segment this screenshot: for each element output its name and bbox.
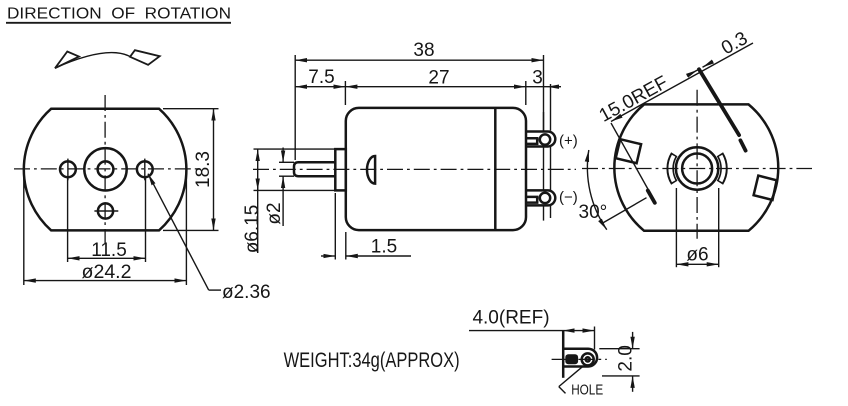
rear view lower-right square [754,176,777,200]
front view right hole [137,161,153,177]
dim 30 degrees [579,150,647,230]
rear view horizontal centerline [582,168,812,170]
svg-text:HOLE: HOLE [571,383,603,399]
svg-text:3: 3 [532,68,543,89]
rear view left slot [670,154,674,183]
dim 3 [526,68,561,131]
svg-text:ø2.36: ø2.36 [222,282,271,303]
dim 27 [345,68,525,106]
rear view outline [614,104,778,230]
title DIRECTION OF ROTATION [6,6,231,23]
front view vertical centerline [104,95,106,243]
terminal tab plus [527,132,556,147]
svg-text:27: 27 [428,68,449,89]
side view endcap seam [494,108,497,230]
terminal tab minus [527,190,556,205]
side view bushing [335,149,346,190]
dim line 15.0REF / 0.3 [596,28,753,127]
rotation arrow arc [55,53,130,68]
svg-text:30°: 30° [579,202,608,223]
dim 11.5 [68,176,146,262]
rotation arrow right head [130,50,160,65]
detail view body edge [562,330,565,378]
detail view slot [565,354,578,364]
rear view bearing circle [682,154,712,184]
svg-text:(+): (+) [559,133,578,150]
svg-text:4.0(REF): 4.0(REF) [472,307,549,328]
hole label leader [559,366,604,399]
blade plane line [611,123,649,191]
dim dia 24.2 [24,175,187,285]
rear terminal blade upper [699,69,739,135]
svg-text:DIRECTION OF ROTATION: DIRECTION OF ROTATION [7,6,231,23]
front view bottom hole [98,203,113,218]
leader dia 2.36 [148,174,271,303]
dim dia 2 [264,148,294,227]
side view terminal lines [544,112,551,221]
rear view upper-left square [616,139,641,163]
dim dia 6.15 [242,149,335,253]
dim 2.0 [599,332,639,392]
svg-text:7.5: 7.5 [308,67,334,88]
side view axis centerline [253,168,576,170]
detail view tab [563,349,597,367]
front view outline [24,109,187,231]
dim 18.3 [163,109,219,231]
svg-text:38: 38 [413,40,434,61]
svg-text:ø6.15: ø6.15 [242,205,263,254]
svg-text:2.0: 2.0 [616,345,637,371]
dim 1.5 [321,193,411,260]
front view shaft circle [98,161,114,177]
dim dia 6 [676,188,718,267]
svg-text:18.3: 18.3 [193,151,214,188]
dim 38 [295,40,543,160]
side view shaft D end [367,156,375,184]
detail view hole [582,353,594,365]
rear view bearing boss circle [676,147,718,189]
side view body [346,108,526,230]
front view boss outer circle [84,148,126,190]
rear terminal blade lower [648,191,655,203]
svg-text:1.5: 1.5 [371,237,397,258]
detail view centerline [552,358,607,360]
svg-text:(−): (−) [559,189,578,206]
front view horizontal centerline [14,168,200,170]
rear view vertical centerline [696,90,698,239]
side view shaft [294,162,335,176]
svg-text:ø2: ø2 [264,202,285,224]
rotation arrow left head [55,52,79,69]
svg-text:ø6: ø6 [686,245,708,266]
rear view right slot [720,154,724,183]
svg-text:11.5: 11.5 [91,240,127,261]
detail view: dim 4.0 REF [469,307,595,349]
dim 7.5 [295,67,345,105]
svg-text:ø24.2: ø24.2 [82,262,132,283]
svg-text:WEIGHT:34g(APPROX): WEIGHT:34g(APPROX) [284,349,460,372]
front view left hole [60,161,76,177]
